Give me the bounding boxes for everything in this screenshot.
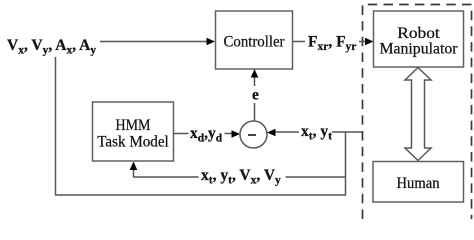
arrowhead into HMM Task Model bottom <box>130 162 138 171</box>
wire: upper feedback horizontal <box>134 176 346 178</box>
svg-text:Robot: Robot <box>397 25 440 42</box>
wire: feedback vertical drop <box>345 132 347 196</box>
summing junction <box>240 121 267 148</box>
wire: Controller to Robot Manipulator <box>293 41 368 43</box>
wire: input label to Controller <box>100 41 209 43</box>
wire: stub up into HMM Task Model <box>133 167 135 178</box>
bidirectional interaction arrow Robot-Human <box>405 68 431 161</box>
arrowhead into Controller bottom <box>251 69 259 78</box>
svg-text:Manipulator: Manipulator <box>380 41 459 58</box>
svg-text:HMM: HMM <box>116 117 151 134</box>
wire: HMM Task Model to summing junction <box>174 133 235 135</box>
arrowhead into Robot Manipulator <box>365 38 374 46</box>
label Fxr, Fyr <box>305 31 359 53</box>
svg-text:xt, yt, Vx, Vy: xt, yt, Vx, Vy <box>201 167 281 187</box>
arrowhead into Controller left <box>207 38 216 46</box>
block Robot Manipulator <box>374 11 464 67</box>
svg-text:e: e <box>252 87 259 104</box>
block HMM Task Model <box>93 102 174 161</box>
svg-text:xt, yt: xt, yt <box>301 123 332 143</box>
svg-text:Human: Human <box>397 175 440 192</box>
svg-text:Task Model: Task Model <box>97 134 169 151</box>
block Human <box>373 162 464 203</box>
wire: system boundary to summing junction (xt, yt) <box>273 131 363 133</box>
label xt, yt <box>299 122 332 142</box>
arrowhead into summing junction right <box>267 129 276 137</box>
label xt, yt, Vx, Vy <box>199 167 286 187</box>
arrowhead into summing junction left <box>232 130 241 138</box>
svg-text:Controller: Controller <box>224 33 286 50</box>
dashed boundary (robot+human system) <box>363 5 472 220</box>
wire: summing junction up to Controller (error e) <box>254 75 256 121</box>
label xd, yd <box>189 124 225 144</box>
block Controller <box>216 11 293 69</box>
label e <box>249 86 262 104</box>
wire: left vertical riser to input label <box>55 57 57 196</box>
wire: lower feedback horizontal <box>55 194 346 196</box>
